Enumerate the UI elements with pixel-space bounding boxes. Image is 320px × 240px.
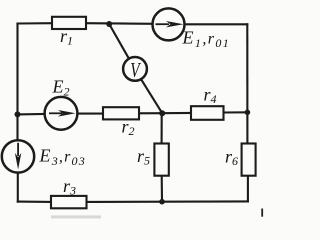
svg-text:E1,r01: E1,r01 [182,28,231,51]
resistor R5 [154,144,168,176]
wire r4 to right [224,111,248,113]
source E2 circle [45,97,78,130]
source E1 circle [153,8,185,40]
arrow of E1 [156,23,170,25]
svg-text:r4: r4 [204,85,217,107]
source E3 circle [2,140,34,172]
arrow of E3 [17,143,19,156]
svg-text:r5: r5 [137,146,150,168]
node junction center [159,110,165,116]
wire bottom right [162,200,248,202]
wire top-right (E1 to corner) [185,23,248,25]
wire left vertical lower [17,173,19,202]
scan smudge bottom edge [51,215,101,218]
wire right vertical upper [246,24,248,143]
svg-text:V: V [130,59,141,82]
wire middle left (to E2) [18,113,45,116]
node junction top (diagonal tap) [106,21,112,27]
wire r5 top lead [161,113,163,143]
node junction right middle [245,110,251,116]
resistor R3 [51,196,87,208]
wire node to r4 [162,112,191,114]
svg-text:r6: r6 [225,147,238,169]
node junction bottom [159,199,165,205]
resistor R4 [191,106,224,120]
svg-text:E2: E2 [52,77,70,99]
wire bottom middle [87,201,163,203]
svg-text:r3: r3 [63,176,76,198]
wire voltmeter to middle node [142,80,163,113]
wire diagonal junction to voltmeter [109,24,128,58]
resistor R2 [103,107,139,119]
wire bottom left [18,201,51,203]
arrow of E2 [49,112,62,114]
node junction left middle [15,111,21,117]
svg-text:E3,r03: E3,r03 [39,146,86,169]
wire r2 to node [139,112,162,114]
voltmeter V circle [123,57,147,81]
resistor R6 [242,144,256,176]
wire top-left horizontal [18,22,53,24]
wire r5 bottom lead [161,176,163,202]
stray tick mark bottom right [261,209,263,217]
wire top middle (r1 to junction to E1) [86,22,153,25]
wire right vertical lower [247,176,249,202]
resistor R1 [52,17,86,29]
wire left vertical upper [16,24,18,141]
wire E2 to r2 [78,113,104,115]
